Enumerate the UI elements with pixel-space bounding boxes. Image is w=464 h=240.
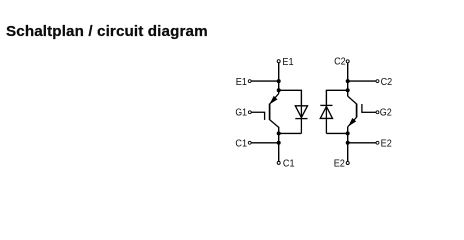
- junction: left rail / D1 / Q1 bottom node: [277, 131, 281, 135]
- wire: E2 aux lead: [348, 142, 376, 144]
- wire: D1 bottom branch: [279, 132, 302, 134]
- transistor Q2 (IGBT, collector up): [348, 90, 362, 127]
- wire: D2 center vertical: [325, 105, 327, 133]
- Q2 gate bar: [361, 104, 363, 112]
- Q1 collector diagonal: [270, 120, 279, 128]
- svg-text:E2: E2: [381, 139, 392, 150]
- junction: E1 aux on left rail: [277, 79, 281, 83]
- Q1 emitter diagonal: [270, 94, 279, 104]
- junction: right rail / D2 / Q2 bottom node: [346, 131, 350, 135]
- wire: left rail bottom segment: [278, 127, 280, 161]
- wire: D2 top branch: [326, 90, 347, 105]
- diode D2 (cathode top, anode bottom): [320, 105, 332, 118]
- terminal C2 top (open circle): [346, 60, 349, 63]
- terminal E2 bottom (open circle): [346, 162, 349, 165]
- wire: D2 bottom branch: [326, 132, 347, 134]
- terminal G1 (open circle): [248, 111, 251, 114]
- junction: C1 aux on left rail: [277, 141, 281, 145]
- Q1 gate bar: [264, 112, 266, 120]
- wire: left rail top segment: [278, 63, 280, 90]
- wire: right rail bottom segment: [347, 127, 349, 162]
- svg-text:C2: C2: [334, 57, 346, 68]
- Q2 emitter arrow: [348, 118, 356, 126]
- diode D1 (anode top, cathode bottom): [295, 106, 307, 119]
- Q1 body bar: [269, 104, 271, 120]
- wire: C1 aux lead: [251, 142, 278, 144]
- wire: right rail top segment: [347, 63, 349, 90]
- terminal G2 (open circle): [376, 111, 379, 114]
- svg-text:E2: E2: [334, 159, 345, 170]
- terminal C2 aux (open circle): [376, 80, 379, 83]
- terminal E1 top (open circle): [277, 60, 280, 63]
- svg-text:E1: E1: [236, 77, 247, 88]
- Q1 emitter arrow: [270, 96, 278, 105]
- svg-text:G2: G2: [380, 108, 392, 119]
- junction: left rail / D1 / Q1 collector node: [277, 88, 281, 92]
- wire: Q2 top lead stub: [347, 90, 349, 96]
- wire: D1 center vertical: [300, 106, 302, 134]
- wire: D1 top branch: [279, 90, 302, 106]
- terminal E1 aux (open circle): [248, 80, 251, 83]
- wire: Q1 top lead stub: [278, 90, 280, 93]
- Q2 collector diagonal: [348, 96, 357, 104]
- svg-text:E1: E1: [282, 57, 293, 68]
- junction: C2 aux on right rail: [346, 79, 350, 83]
- wire: G1 lead: [251, 111, 265, 113]
- svg-text:C1: C1: [283, 159, 295, 170]
- junction: E2 aux on right rail: [346, 141, 350, 145]
- svg-text:C2: C2: [381, 77, 393, 88]
- Q2 emitter diagonal: [348, 117, 357, 127]
- wire: E1 aux lead: [251, 80, 278, 82]
- wire: C2 aux lead: [348, 80, 376, 82]
- terminal C1 bottom (open circle): [277, 161, 280, 164]
- junction: right rail / D2 / Q2 collector node: [346, 88, 350, 92]
- transistor Q1 (IGBT, emitter up): [265, 90, 279, 127]
- wire: G2 lead: [361, 111, 376, 113]
- svg-text:C1: C1: [235, 139, 247, 150]
- svg-text:G1: G1: [235, 107, 247, 118]
- Q2 body bar: [356, 104, 358, 118]
- terminal E2 aux (open circle): [376, 141, 379, 144]
- svg-text:Schaltplan / circuit diagram: Schaltplan / circuit diagram: [6, 23, 208, 40]
- terminal C1 aux (open circle): [248, 141, 251, 144]
